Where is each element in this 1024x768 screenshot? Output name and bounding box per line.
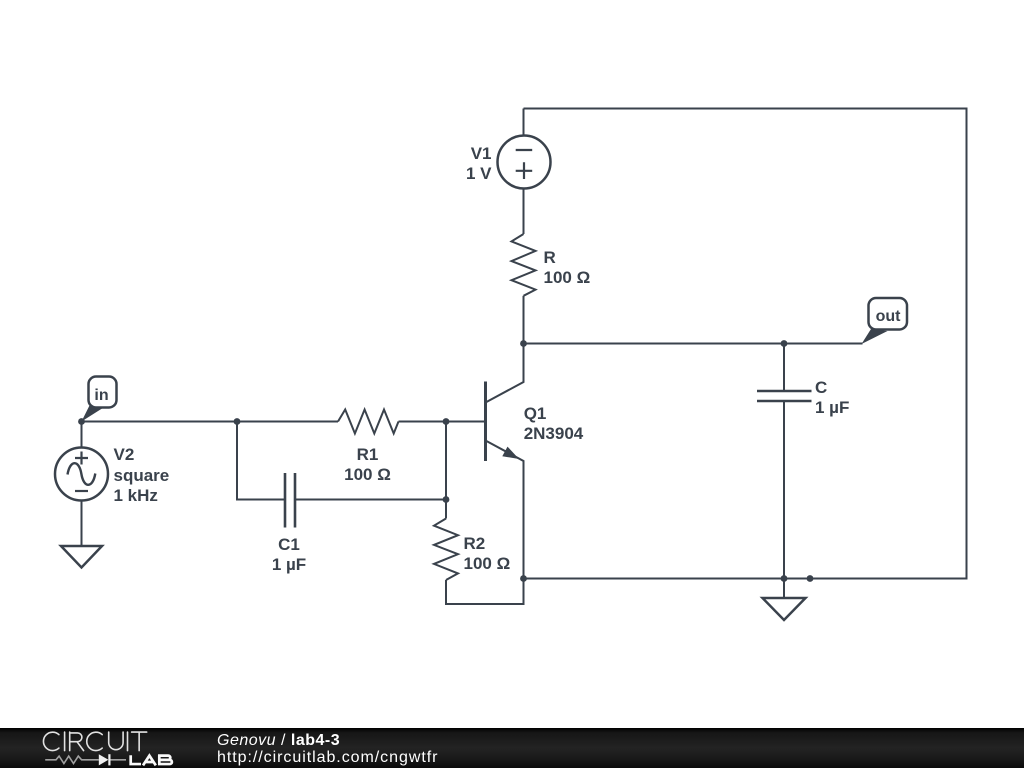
transistor Q1 emitter	[486, 441, 524, 579]
label R2	[464, 534, 511, 574]
node dot emitter rail	[520, 575, 527, 582]
wire collector node to out flag	[524, 343, 863, 345]
source V2 sine glyph	[68, 463, 96, 485]
node dot rail extra	[807, 575, 814, 582]
wire base node down to R2	[445, 422, 447, 519]
wire R1 to base node	[399, 421, 447, 423]
label in	[77, 386, 127, 406]
wire C1 right to node	[295, 499, 446, 501]
wire R2 bottom loop to emitter	[446, 579, 524, 605]
node dot C top	[781, 340, 788, 347]
label V2	[114, 445, 170, 507]
wire in node to V2	[81, 422, 83, 448]
label R	[544, 248, 591, 288]
label Q1	[524, 404, 584, 444]
flag in box	[89, 377, 117, 408]
wire collector	[486, 344, 524, 403]
resistor R zigzag	[512, 234, 536, 296]
label C	[815, 378, 849, 418]
wire in node to R1	[82, 421, 339, 423]
wire C bottom lead	[783, 401, 785, 579]
label out	[863, 307, 913, 327]
wire C top lead	[783, 344, 785, 392]
node dot base	[443, 418, 450, 425]
ground under V2	[61, 546, 102, 568]
wire R bottom to collector node	[523, 296, 525, 344]
node dot C1 branch	[234, 418, 241, 425]
wire V2 bottom lead	[81, 501, 83, 546]
label R1	[298, 445, 438, 485]
CircuitLab logo	[40, 729, 220, 768]
source V2 plus sign	[75, 452, 88, 465]
ground under bottom rail	[763, 598, 806, 620]
source V1 plus sign	[516, 162, 533, 179]
footer bar	[0, 728, 1024, 768]
node dot collector	[520, 340, 527, 347]
flag in pointer	[82, 406, 105, 422]
flag out box	[869, 298, 908, 330]
transistor Q1 emitter arrow	[502, 447, 519, 459]
source V1 circle	[498, 136, 551, 189]
wire top rail, right rail, bottom rail	[524, 109, 967, 579]
label V1	[466, 144, 492, 184]
source V2 circle	[55, 448, 108, 501]
source V1 minus sign	[516, 149, 533, 151]
node dot in	[78, 418, 85, 425]
source V2 minus sign	[75, 490, 88, 492]
flag out pointer	[862, 329, 888, 344]
wire V1 bottom lead	[523, 189, 525, 235]
ground stem on bottom rail	[783, 579, 785, 598]
wire V1 top lead	[523, 109, 525, 137]
wire base lead	[446, 421, 486, 423]
capacitor C plates	[757, 391, 812, 401]
resistor R1 zigzag	[338, 410, 399, 434]
resistor R2 zigzag	[434, 519, 458, 581]
label C1	[219, 535, 359, 575]
node dot ground rail	[781, 575, 788, 582]
wire C1 branch left	[237, 422, 285, 500]
node dot C1-R2	[443, 496, 450, 503]
transistor Q1 base bar	[484, 382, 487, 462]
capacitor C1 plates	[285, 473, 295, 528]
